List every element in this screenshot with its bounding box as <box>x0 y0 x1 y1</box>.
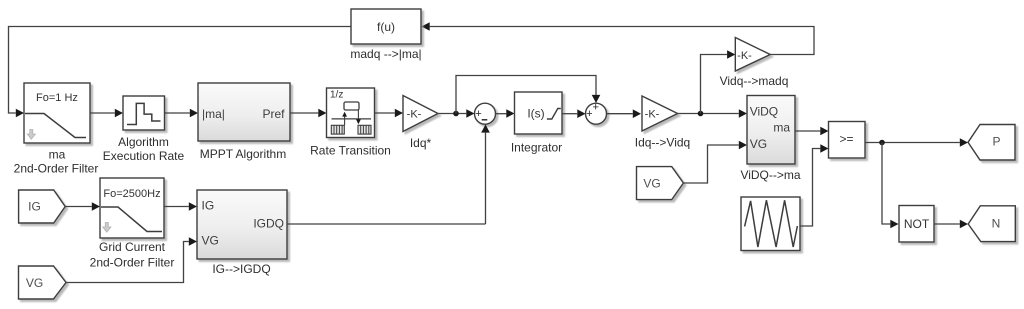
wire: AER to MPPT Algorithm <box>165 112 190 114</box>
wire: IG to Grid Current filter <box>65 206 92 208</box>
wire: junction down to NOT <box>882 143 890 225</box>
filter curve icon <box>25 114 86 138</box>
block: f(u) madq->|ma| <box>351 9 421 44</box>
rate transition icon: hatched buffer right <box>358 125 371 134</box>
wire: gain to ViDQ input with junction <box>678 113 739 115</box>
input port VG (bottom left) <box>19 266 67 299</box>
block: triangle wave generator <box>741 197 800 251</box>
svg-text:Idq-->Vidq: Idq-->Vidq <box>635 136 690 150</box>
wire: sum1 to Integrator <box>496 113 507 115</box>
svg-text:ma: ma <box>773 120 790 134</box>
sum1 (+ -) <box>475 103 496 124</box>
svg-text:+: + <box>475 108 481 120</box>
wire: bypass from junction up and over to sum2 top <box>456 76 596 114</box>
filter curve icon <box>101 207 162 232</box>
svg-text:Algorithm: Algorithm <box>118 135 169 149</box>
wire: ma filter to Algorithm Execution Rate <box>90 112 115 114</box>
wire: Rate Transition to Idq* gain <box>375 112 395 114</box>
svg-text:Vidq-->madq: Vidq-->madq <box>720 74 789 88</box>
svg-text:Execution Rate: Execution Rate <box>103 149 185 163</box>
svg-text:-K-: -K- <box>737 50 752 62</box>
svg-text:MPPT Algorithm: MPPT Algorithm <box>200 147 286 161</box>
block: Rate Transition <box>327 88 375 138</box>
block: Grid Current 2nd-Order Filter <box>100 178 164 238</box>
svg-text:-K-: -K- <box>645 109 660 121</box>
triangle waveform icon <box>745 200 798 247</box>
svg-text:+: + <box>592 102 598 114</box>
block: NOT <box>899 206 934 243</box>
svg-text:>=: >= <box>839 132 853 146</box>
input port VG (right middle) <box>637 167 684 200</box>
svg-text:I(s): I(s) <box>527 107 544 121</box>
svg-text:1/z: 1/z <box>330 90 343 101</box>
svg-text:-K-: -K- <box>407 109 422 121</box>
sum2 (+ +) <box>586 103 607 124</box>
rate transition icon: register box <box>344 102 359 110</box>
svg-text:VG: VG <box>26 276 43 290</box>
svg-text:Rate Transition: Rate Transition <box>310 144 391 158</box>
wire: feedback from f(u) output left and down into ma filter <box>9 27 352 114</box>
svg-text:ViDQ: ViDQ <box>750 104 778 118</box>
wire: NOT to N <box>934 223 960 225</box>
svg-text:ViDQ-->ma: ViDQ-->ma <box>740 168 800 182</box>
svg-text:Fo=1 Hz: Fo=1 Hz <box>36 92 78 104</box>
gray down-arrow icon <box>103 223 111 233</box>
wire: >= output to P with junction <box>865 142 960 144</box>
node: junction after Idq* <box>453 111 459 117</box>
svg-text:VG: VG <box>643 177 660 191</box>
node: junction after >= <box>879 140 885 146</box>
svg-text:madq -->|ma|: madq -->|ma| <box>350 47 421 61</box>
svg-text:Integrator: Integrator <box>511 141 562 155</box>
svg-text:2nd-Order Filter: 2nd-Order Filter <box>14 162 99 176</box>
svg-text:Grid Current: Grid Current <box>99 240 166 254</box>
block: ma 2nd-Order Filter <box>24 83 90 143</box>
svg-text:NOT: NOT <box>904 217 930 231</box>
gray down-arrow icon <box>27 130 35 140</box>
svg-text:|ma|: |ma| <box>202 107 225 121</box>
svg-text:+: + <box>586 108 592 120</box>
rate transition icon: hatched buffer left <box>331 125 344 134</box>
integrator saturation glyph <box>547 109 561 120</box>
output port P <box>968 125 1015 161</box>
svg-text:ma: ma <box>49 148 66 162</box>
wire: triangle wave to >= second input <box>800 149 820 227</box>
block: MPPT Algorithm (subsystem) <box>198 83 290 141</box>
wire: MPPT to Rate Transition <box>290 112 318 114</box>
svg-text:P: P <box>992 135 1000 149</box>
wire: IGDQ output right to sum1 riser <box>287 223 486 225</box>
svg-text:VG: VG <box>202 234 219 248</box>
svg-text:f(u): f(u) <box>377 20 395 34</box>
staircase icon <box>127 103 161 124</box>
svg-text:Fo=2500Hz: Fo=2500Hz <box>103 188 160 200</box>
svg-text:IG: IG <box>202 199 215 213</box>
wire: IGDQ signal up into sum1 bottom <box>485 133 487 224</box>
svg-text:Pref: Pref <box>262 107 285 121</box>
block: Algorithm Execution Rate <box>123 96 165 130</box>
gain Idq* <box>403 96 438 132</box>
block: Integrator <box>515 92 563 134</box>
wire: Integrator to sum2 <box>562 113 577 115</box>
svg-text:Idq*: Idq* <box>410 136 432 150</box>
svg-text:VG: VG <box>750 137 767 151</box>
svg-text:N: N <box>992 217 1001 231</box>
block: relational operator >= <box>829 122 866 159</box>
rate transition icon: timeline <box>332 118 372 120</box>
wire: Idq* gain to sum1 with junction <box>438 113 466 115</box>
wire: ma output to >= first input <box>795 130 820 132</box>
output port N <box>968 206 1015 242</box>
svg-text:2nd-Order Filter: 2nd-Order Filter <box>90 256 175 270</box>
input port IG <box>19 190 66 223</box>
svg-text:IG: IG <box>28 200 41 214</box>
svg-text:IGDQ: IGDQ <box>253 217 284 231</box>
svg-text:IG-->IGDQ: IG-->IGDQ <box>212 262 270 276</box>
